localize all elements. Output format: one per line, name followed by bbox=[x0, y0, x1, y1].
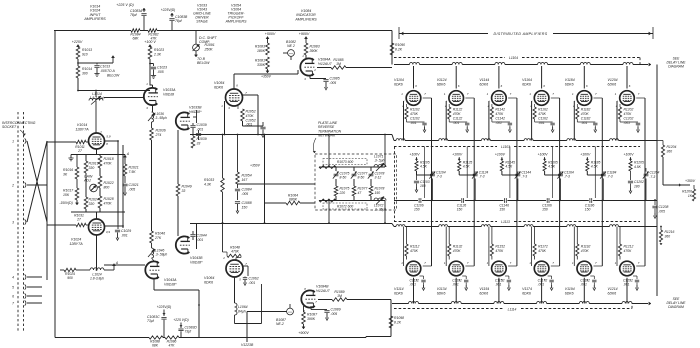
capacitor C1083B bbox=[171, 13, 173, 17]
svg-text:27: 27 bbox=[77, 149, 82, 153]
svg-text:330: 330 bbox=[89, 166, 95, 170]
svg-text:2.3K: 2.3K bbox=[153, 52, 162, 56]
wire V1184 grid down bbox=[573, 100, 576, 102]
resistor R1033 bbox=[222, 135, 224, 179]
inductor L1064 bbox=[235, 303, 238, 315]
wire grid line lower y=223 bbox=[190, 223, 392, 225]
svg-text:470K: 470K bbox=[624, 112, 633, 116]
svg-text:R1216: R1216 bbox=[665, 230, 675, 234]
svg-text:C1052: C1052 bbox=[246, 118, 256, 122]
node -150V(D) bbox=[76, 200, 78, 203]
resistor R1086 bottom bus bbox=[165, 336, 179, 339]
wire V1154 plate down bbox=[498, 278, 500, 304]
svg-text:.7-3: .7-3 bbox=[564, 175, 570, 179]
svg-text:4.5K: 4.5K bbox=[634, 165, 642, 169]
capacitor C1089 bbox=[310, 306, 312, 310]
wire to +350V right bbox=[662, 157, 664, 185]
capacitor C1106 series bbox=[418, 198, 420, 203]
resistor R1083b bbox=[304, 43, 308, 55]
tube V1033A half 6DJ8 bbox=[144, 88, 158, 105]
svg-text:15K: 15K bbox=[63, 193, 70, 197]
svg-text:3-12: 3-12 bbox=[375, 175, 382, 179]
svg-text:+225 V (D): +225 V (D) bbox=[116, 3, 133, 7]
svg-text:DISTRIBUTED AMPLIFIERS: DISTRIBUTED AMPLIFIERS bbox=[494, 32, 548, 36]
svg-text:470K: 470K bbox=[104, 161, 113, 165]
resistor R1102 bbox=[406, 104, 408, 107]
svg-text:+100V: +100V bbox=[538, 153, 549, 157]
svg-text:R1172: R1172 bbox=[538, 245, 548, 249]
svg-text:.001: .001 bbox=[538, 283, 545, 287]
svg-text:390K: 390K bbox=[310, 49, 319, 53]
svg-text:27: 27 bbox=[76, 218, 81, 222]
wire V1043B plate to grid line bbox=[196, 224, 198, 250]
resistor R1084 bbox=[131, 29, 140, 33]
svg-text:DIAGRAM: DIAGRAM bbox=[668, 64, 684, 68]
svg-text:470K: 470K bbox=[410, 249, 419, 253]
label distributed amplifiers bracket bbox=[398, 27, 400, 39]
svg-text:8.2K: 8.2K bbox=[394, 320, 402, 324]
svg-text:+100V: +100V bbox=[623, 153, 634, 157]
ground C1021 bbox=[124, 190, 126, 193]
svg-text:680K: 680K bbox=[289, 198, 298, 202]
wire R1145 down bbox=[501, 171, 503, 175]
svg-text:+225V(D): +225V(D) bbox=[157, 305, 172, 309]
svg-text:NE 2: NE 2 bbox=[287, 44, 295, 48]
capacitor C1162 bbox=[534, 119, 536, 122]
capacitor C1152 bbox=[505, 275, 509, 277]
svg-text:3: 3 bbox=[12, 220, 14, 224]
wire V1054 grid down bbox=[224, 101, 226, 135]
ground C1162 bbox=[552, 127, 554, 130]
wire V1204 screen down bbox=[636, 97, 645, 99]
svg-text:R1205: R1205 bbox=[634, 161, 644, 165]
resistor R1049 bbox=[176, 184, 180, 196]
svg-text:470K: 470K bbox=[624, 249, 633, 253]
svg-text:R1039: R1039 bbox=[197, 137, 207, 141]
wire V1054 screen right bbox=[242, 94, 258, 96]
svg-text:33: 33 bbox=[182, 189, 186, 193]
wire V1114 screen up bbox=[423, 265, 432, 267]
tube V1043B half 6DJ8 bbox=[176, 236, 190, 253]
wire V1174 plate down bbox=[541, 278, 543, 304]
svg-text:R1212: R1212 bbox=[624, 245, 634, 249]
svg-text:.3-.5μh: .3-.5μh bbox=[374, 158, 385, 162]
svg-text:+100V: +100V bbox=[409, 153, 420, 157]
wire to V1223B bbox=[246, 312, 248, 343]
svg-text:360: 360 bbox=[667, 149, 673, 153]
svg-text:V1154: V1154 bbox=[479, 287, 489, 291]
svg-text:+350V: +350V bbox=[250, 164, 261, 168]
svg-text:150: 150 bbox=[499, 208, 505, 212]
wire V1204 plate bbox=[626, 66, 628, 89]
svg-text:7: 7 bbox=[12, 301, 14, 305]
svg-text:L1064: L1064 bbox=[238, 305, 248, 309]
svg-text:+225V: +225V bbox=[72, 40, 83, 44]
resistor R1022 bbox=[98, 176, 102, 188]
resistor R1216 bbox=[660, 227, 662, 231]
wire V1054 plate bbox=[233, 74, 235, 89]
capacitor C1202b bbox=[628, 180, 633, 182]
svg-text:8-50: 8-50 bbox=[340, 175, 347, 179]
ground C1132 bbox=[465, 285, 467, 288]
svg-text:.7-3: .7-3 bbox=[521, 175, 527, 179]
svg-text:470K: 470K bbox=[581, 249, 590, 253]
resistor R1142 bbox=[491, 104, 493, 107]
tube V1033B half 6DJ8 bbox=[176, 112, 190, 129]
svg-text:R1024: R1024 bbox=[89, 198, 99, 202]
resistor R1011 grid stopper bbox=[47, 141, 76, 143]
svg-text:NE-2: NE-2 bbox=[276, 322, 284, 326]
resistor R1014 bbox=[76, 66, 80, 78]
svg-text:V1134: V1134 bbox=[437, 287, 447, 291]
tube V1084B half 12AU7 bbox=[301, 290, 315, 307]
svg-text:R1049: R1049 bbox=[182, 185, 192, 189]
resistor R1024 bbox=[84, 197, 88, 209]
wire V1033A grid feed bbox=[104, 97, 144, 99]
wire network top line bbox=[319, 166, 385, 168]
inductor L1014 bbox=[95, 91, 97, 98]
svg-text:L1114: L1114 bbox=[508, 307, 517, 311]
svg-text:470K: 470K bbox=[453, 112, 462, 116]
svg-text:AMPLIFIERS: AMPLIFIERS bbox=[225, 20, 247, 24]
ground C1122 bbox=[466, 127, 468, 130]
svg-text:4.5K: 4.5K bbox=[548, 165, 556, 169]
node +900V bottom bbox=[303, 324, 305, 327]
wire plate line bottom dashed L1114 bbox=[394, 308, 503, 310]
wire left box edge bbox=[54, 31, 56, 338]
svg-text:6DK6: 6DK6 bbox=[522, 292, 531, 296]
svg-text:C1062: C1062 bbox=[249, 277, 259, 281]
capacitor C1085 bbox=[323, 79, 328, 81]
neon B1087 bbox=[287, 308, 294, 315]
svg-text:6DK6: 6DK6 bbox=[608, 83, 617, 87]
svg-text:R1014: R1014 bbox=[82, 67, 92, 71]
wire V1114 grid up bbox=[403, 227, 405, 267]
svg-text:.001: .001 bbox=[197, 238, 204, 242]
svg-text:R1202: R1202 bbox=[624, 108, 634, 112]
resistor R1016 bbox=[76, 155, 78, 168]
svg-text:R1192: R1192 bbox=[581, 245, 591, 249]
socket pin 1 bbox=[25, 138, 26, 143]
resistor R1172 bbox=[534, 227, 536, 245]
svg-text:C1142: C1142 bbox=[495, 117, 505, 121]
node A arrow bbox=[124, 156, 126, 160]
socket pin 3 bbox=[25, 219, 26, 224]
resistor R1071 in line bbox=[319, 166, 336, 169]
ground C1208 bbox=[654, 213, 656, 216]
inductor L1071 bbox=[374, 165, 386, 168]
svg-text:R1073 600: R1073 600 bbox=[337, 160, 354, 164]
svg-text:470K: 470K bbox=[581, 112, 590, 116]
svg-text:C1089: C1089 bbox=[331, 308, 341, 312]
wire R1023 down bbox=[149, 59, 151, 86]
svg-text:+100 V: +100 V bbox=[144, 40, 156, 44]
capacitor C1021 bbox=[124, 176, 126, 183]
wire V1114 plate down bbox=[413, 278, 415, 304]
svg-text:150: 150 bbox=[375, 191, 381, 195]
svg-text:300: 300 bbox=[82, 71, 88, 75]
capacitor C1182 bbox=[576, 119, 578, 122]
svg-text:V1164: V1164 bbox=[522, 78, 532, 82]
wire V1043A cathode down bbox=[153, 279, 155, 290]
tube V1024 bbox=[89, 219, 105, 235]
wire socket pin3 cross bbox=[27, 141, 47, 222]
capacitor C1166 series bbox=[546, 198, 548, 203]
trimmer C1104 bbox=[432, 172, 434, 176]
svg-text:2: 2 bbox=[313, 68, 316, 72]
svg-text:.7-3: .7-3 bbox=[650, 175, 656, 179]
svg-text:470K: 470K bbox=[231, 250, 240, 254]
tube V1184 bbox=[577, 91, 592, 106]
node +350V indicator bbox=[267, 69, 269, 71]
wire center rail x=264.5 bbox=[264, 135, 266, 224]
resistor R1046 bbox=[150, 231, 154, 243]
resistor R1182 bbox=[576, 104, 578, 107]
wire grid line bottom dashed L1113 bbox=[394, 221, 497, 223]
trimmer C1077 bbox=[352, 173, 357, 175]
resistor R1064 bbox=[265, 202, 287, 204]
svg-text:47K: 47K bbox=[169, 344, 176, 348]
svg-text:78μf: 78μf bbox=[175, 19, 183, 23]
svg-text:V1144: V1144 bbox=[479, 78, 489, 82]
tube V1134 bbox=[449, 261, 464, 276]
tube V1043A half 6DJ8 bbox=[152, 258, 155, 261]
svg-text:180: 180 bbox=[420, 184, 426, 188]
svg-text:+900V: +900V bbox=[298, 331, 309, 335]
socket pin 5 bbox=[25, 284, 26, 289]
resistor R1028 bbox=[98, 196, 102, 208]
socket pin 6 bbox=[25, 293, 26, 298]
wire V1084A cathode bbox=[309, 76, 311, 79]
svg-text:.001: .001 bbox=[452, 283, 459, 287]
svg-text:BELOW: BELOW bbox=[197, 61, 210, 65]
svg-text:R1028: R1028 bbox=[104, 197, 114, 201]
svg-text:L1104: L1104 bbox=[509, 56, 518, 60]
capacitor C1052 bbox=[262, 122, 264, 126]
tube V1064 bbox=[226, 260, 243, 277]
svg-text:½6DJ8: ½6DJ8 bbox=[163, 92, 174, 96]
svg-text:BELOW: BELOW bbox=[107, 73, 120, 77]
wire grid line bottom solid bbox=[394, 226, 396, 228]
wire to V1084A bbox=[305, 55, 307, 59]
svg-text:.001: .001 bbox=[197, 127, 204, 131]
wire cathode rail x=151.5 bbox=[151, 140, 153, 231]
ground C1013 bbox=[96, 71, 98, 74]
svg-text:6DK6: 6DK6 bbox=[479, 83, 488, 87]
svg-text:STAGE: STAGE bbox=[196, 20, 208, 24]
svg-text:.2-.35μh: .2-.35μh bbox=[374, 207, 386, 211]
wire R1125 down bbox=[458, 171, 460, 175]
arrow to delay line top bbox=[649, 63, 651, 66]
svg-text:360: 360 bbox=[665, 234, 671, 238]
resistor R1082 bbox=[148, 29, 157, 33]
svg-text:½12AU7: ½12AU7 bbox=[316, 289, 331, 293]
tube V1124 bbox=[449, 91, 464, 106]
svg-text:C1029: C1029 bbox=[121, 229, 131, 233]
svg-text:ADJ.: ADJ. bbox=[83, 179, 91, 183]
wire V1134 plate down bbox=[455, 278, 457, 304]
svg-text:6DK6: 6DK6 bbox=[214, 85, 223, 89]
svg-text:½6DJ8*: ½6DJ8* bbox=[190, 260, 203, 264]
svg-text:TO A: TO A bbox=[107, 69, 115, 73]
ground C1062 bbox=[244, 280, 246, 283]
svg-text:68K: 68K bbox=[152, 344, 159, 348]
svg-text:R1017: R1017 bbox=[63, 189, 74, 193]
svg-text:4.5K: 4.5K bbox=[420, 165, 428, 169]
tube V1174 bbox=[534, 261, 549, 276]
svg-text:V1084A: V1084A bbox=[318, 58, 331, 62]
inductor L1072 bbox=[374, 198, 386, 200]
svg-text:220: 220 bbox=[339, 191, 346, 195]
capacitor C1083A bbox=[143, 8, 145, 12]
svg-text:.001: .001 bbox=[410, 121, 417, 125]
resistor R1202 bbox=[619, 104, 621, 107]
ground C1029 bbox=[117, 235, 119, 238]
resistor R1212 bbox=[619, 227, 621, 245]
ground C1088 bbox=[237, 208, 239, 211]
resistor R1205 bbox=[629, 161, 632, 171]
resistor R1072 dashed outline bbox=[323, 203, 367, 209]
wire V1154 screen up bbox=[508, 265, 517, 267]
wire V1164 screen down bbox=[551, 97, 560, 99]
svg-text:390K: 390K bbox=[307, 317, 316, 321]
neon B1082 bbox=[288, 50, 295, 57]
svg-text:C1021: C1021 bbox=[129, 183, 139, 187]
svg-text:R1081: R1081 bbox=[255, 59, 265, 63]
inductor L1024 bbox=[60, 269, 64, 271]
svg-text:180K: 180K bbox=[257, 49, 266, 53]
resistor R1145 bbox=[500, 161, 503, 171]
ground C1023 bbox=[153, 73, 155, 76]
svg-text:R1077: R1077 bbox=[358, 187, 368, 191]
resistor R1087 bbox=[303, 306, 305, 312]
svg-text:.7-3: .7-3 bbox=[436, 175, 442, 179]
trimmer C1184 bbox=[602, 172, 604, 176]
svg-text:1.8-3.8μh: 1.8-3.8μh bbox=[90, 276, 104, 280]
capacitor C1146 series bbox=[504, 198, 506, 203]
svg-text:R1087: R1087 bbox=[307, 313, 318, 317]
wire network bottom connections bbox=[328, 201, 330, 224]
arrow to delay line bottom bbox=[649, 302, 651, 305]
svg-text:+225 V(D): +225 V(D) bbox=[173, 318, 188, 322]
wire V1014 plate out bbox=[105, 140, 119, 142]
ground C1142 bbox=[509, 127, 511, 130]
wire cathode rail top bbox=[96, 149, 98, 155]
svg-text:.001: .001 bbox=[410, 283, 417, 287]
svg-text:C1204: C1204 bbox=[650, 171, 660, 175]
resistor R1192 bbox=[576, 227, 578, 245]
resistor R1122 bbox=[448, 104, 450, 107]
resistor R1073 dashed outline bbox=[323, 159, 367, 165]
svg-text:.001: .001 bbox=[623, 283, 630, 287]
svg-text:6DK6: 6DK6 bbox=[608, 292, 617, 296]
resistor R1206 bbox=[693, 185, 695, 189]
capacitor C1083C bbox=[161, 317, 166, 319]
resistor R1085 bbox=[317, 67, 331, 69]
svg-text:274: 274 bbox=[155, 133, 162, 137]
svg-text:C1039: C1039 bbox=[197, 123, 207, 127]
svg-text:900: 900 bbox=[67, 276, 73, 280]
svg-text:R1142: R1142 bbox=[495, 108, 505, 112]
wire V1043A grid feed bbox=[104, 264, 145, 266]
capacitor C1044 bbox=[190, 234, 195, 236]
svg-text:+100V: +100V bbox=[580, 153, 591, 157]
svg-text:6DK6: 6DK6 bbox=[394, 292, 403, 296]
svg-text:C1084: C1084 bbox=[242, 188, 252, 192]
capacitor C1212 bbox=[633, 275, 637, 277]
wire vertical pair x=118 bbox=[117, 141, 119, 224]
capacitor C1062 bbox=[244, 265, 249, 267]
socket pin 2 bbox=[25, 182, 26, 187]
wire V1184 plate bbox=[583, 66, 585, 89]
svg-text:AMPLIFIERS: AMPLIFIERS bbox=[294, 17, 317, 21]
svg-text:4.5K: 4.5K bbox=[591, 165, 599, 169]
resistor R1077 bbox=[352, 186, 356, 196]
wire V1124 grid down bbox=[445, 100, 448, 102]
svg-text:78μf: 78μf bbox=[130, 13, 138, 17]
svg-text:.001: .001 bbox=[249, 281, 256, 285]
wire plate line dashed L1104 bbox=[394, 57, 505, 59]
svg-text:.001: .001 bbox=[453, 121, 460, 125]
svg-text:R1204: R1204 bbox=[667, 145, 677, 149]
wire V1204 grid down bbox=[616, 100, 619, 102]
wire V1144 grid down bbox=[488, 100, 491, 102]
svg-text:470K: 470K bbox=[495, 249, 504, 253]
wire V1134 screen up bbox=[465, 265, 474, 267]
trimmer C1204 bbox=[645, 168, 647, 172]
svg-text:R1022: R1022 bbox=[104, 181, 114, 185]
svg-text:.7-3: .7-3 bbox=[479, 175, 485, 179]
wire R1013 node bbox=[77, 59, 79, 66]
capacitor C1102 bbox=[406, 119, 408, 122]
wire V1124 screen down bbox=[465, 97, 474, 99]
tube V1154 bbox=[492, 261, 507, 276]
svg-text:.005: .005 bbox=[659, 209, 666, 213]
tube V1164 bbox=[534, 91, 549, 106]
wire gain network verticals bbox=[85, 155, 87, 162]
wire V1033B cathode chain bbox=[177, 130, 179, 184]
svg-text:1M: 1M bbox=[337, 294, 342, 298]
wire V1174 screen up bbox=[551, 265, 560, 267]
svg-text:+100V: +100V bbox=[452, 153, 463, 157]
tube V1194 bbox=[577, 261, 592, 276]
wire inner left rail bbox=[46, 141, 48, 280]
svg-text:73μf: 73μf bbox=[185, 329, 193, 333]
svg-text:1M: 1M bbox=[336, 62, 341, 66]
wire V1144 screen down bbox=[508, 97, 517, 99]
tube V1204 bbox=[620, 91, 635, 106]
svg-text:R1018: R1018 bbox=[104, 157, 114, 161]
resistor R1152 bbox=[491, 227, 493, 245]
tube V1084A half 12AU7 bbox=[300, 58, 314, 75]
capacitor C1084 bbox=[237, 184, 239, 188]
svg-text:6DK6: 6DK6 bbox=[522, 83, 531, 87]
svg-text:V1194: V1194 bbox=[565, 287, 575, 291]
svg-text:470K: 470K bbox=[495, 112, 504, 116]
wire column verticals mid bbox=[424, 147, 426, 199]
svg-text:R1090: R1090 bbox=[395, 43, 405, 47]
capacitor C1122 bbox=[448, 119, 450, 122]
svg-text:+900V: +900V bbox=[299, 32, 310, 36]
ground C1089 bbox=[326, 315, 328, 318]
wire V1134 grid up bbox=[445, 227, 447, 267]
svg-text:.001: .001 bbox=[495, 121, 502, 125]
svg-text:+350V: +350V bbox=[685, 179, 696, 183]
svg-text:½12AU7: ½12AU7 bbox=[318, 62, 333, 66]
svg-text:L1103: L1103 bbox=[501, 145, 510, 149]
ground C1112 bbox=[423, 285, 425, 288]
wire bottom box bbox=[55, 337, 138, 339]
